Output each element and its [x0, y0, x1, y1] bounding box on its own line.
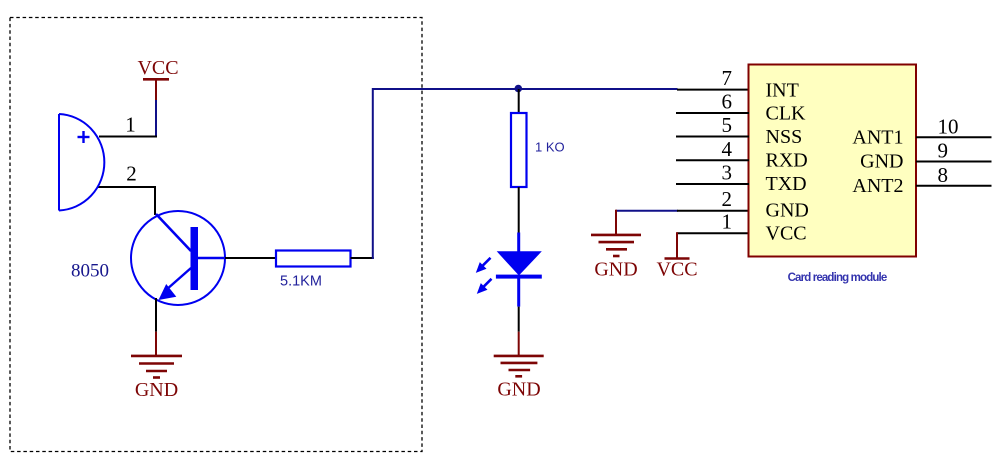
wire pin2 stub (black)	[677, 210, 749, 212]
LED arrow 1	[481, 258, 491, 268]
wire buzzer pin 1 stub	[99, 136, 157, 138]
wire pin9 stub	[916, 161, 992, 163]
wire pin1 stub (black)	[677, 232, 749, 234]
wire module pin2 to GND (navy)	[616, 210, 678, 212]
wire junction down to resistor R2	[518, 89, 520, 114]
wire VCC to buzzer pin 1 (vertical navy)	[155, 100, 157, 138]
svg-text:10: 10	[938, 114, 959, 138]
wire buzzer pin 2 stub	[98, 186, 156, 188]
wire resistor to corner	[351, 257, 374, 259]
resistor R2 1 KO	[511, 113, 527, 187]
svg-text:GND: GND	[860, 151, 903, 173]
module U1 card reading module	[749, 65, 917, 257]
dashed enclosure box	[10, 18, 422, 452]
ground symbol (module pin 2)	[591, 235, 641, 256]
wire pin7 stub (black)	[677, 89, 749, 91]
wire pin6 stub	[676, 112, 749, 114]
wire LED down (black)	[518, 307, 520, 332]
svg-text:1: 1	[722, 210, 733, 234]
svg-text:CLK: CLK	[766, 103, 807, 125]
wire pin8 stub	[916, 185, 992, 187]
svg-text:9: 9	[938, 139, 949, 163]
LED arrow 2	[482, 279, 492, 289]
svg-text:5: 5	[722, 113, 733, 137]
wire vertical up (navy)	[373, 89, 678, 259]
svg-text:8: 8	[938, 163, 949, 187]
svg-text:1 KO: 1 KO	[535, 139, 565, 154]
power symbol VCC (top left)	[137, 57, 178, 100]
wire emitter down (black)	[155, 298, 157, 332]
wire emitter to ground (dark red)	[155, 332, 157, 356]
ground symbol (under transistor)	[131, 356, 182, 378]
svg-text:TXD: TXD	[766, 173, 807, 195]
wire pin5 stub	[676, 136, 749, 138]
svg-text:6: 6	[722, 90, 733, 114]
wire pin10 stub	[916, 136, 992, 138]
wire VCC drop (dark red)	[676, 232, 678, 258]
svg-text:RXD: RXD	[766, 150, 808, 172]
ground symbol (under LED)	[494, 356, 544, 376]
svg-text:1: 1	[125, 113, 136, 137]
wire resistor R2 to LED	[518, 187, 520, 233]
svg-text:NSS: NSS	[766, 126, 803, 148]
svg-text:VCC: VCC	[766, 223, 807, 245]
wire base to resistor R1	[225, 257, 277, 259]
svg-text:Card reading module: Card reading module	[788, 272, 887, 284]
svg-text:2: 2	[722, 187, 733, 211]
svg-text:8050: 8050	[71, 261, 109, 282]
svg-text:2: 2	[126, 161, 137, 185]
svg-text:GND: GND	[594, 259, 637, 281]
svg-text:VCC: VCC	[656, 259, 697, 281]
resistor R1 5.1KM	[276, 251, 351, 267]
svg-text:5.1KM: 5.1KM	[280, 274, 322, 290]
svg-text:7: 7	[722, 66, 733, 90]
buzzer LS (D-shape with +)	[59, 114, 104, 211]
svg-text:GND: GND	[135, 379, 178, 401]
wire pin2 down to transistor base-collector entry	[154, 186, 156, 215]
svg-text:ANT1: ANT1	[852, 127, 903, 149]
power symbol VCC (module pin 1)	[656, 259, 697, 281]
svg-text:VCC: VCC	[137, 57, 178, 79]
wire pin3 stub	[676, 183, 749, 185]
transistor Q1 8050	[131, 211, 226, 305]
svg-text:ANT2: ANT2	[852, 175, 903, 197]
svg-text:GND: GND	[766, 200, 809, 222]
svg-text:INT: INT	[766, 80, 799, 102]
svg-text:GND: GND	[497, 379, 540, 401]
svg-text:3: 3	[722, 161, 733, 185]
wire pin4 stub	[676, 159, 749, 161]
svg-text:4: 4	[722, 137, 733, 161]
junction node	[515, 85, 523, 93]
LED D1	[476, 233, 542, 307]
wire GND drop (dark red)	[615, 210, 617, 235]
wire to ground (dark red)	[518, 332, 520, 356]
